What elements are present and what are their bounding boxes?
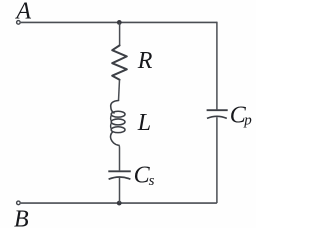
resistor R (zigzag) [112,45,127,79]
wire: lead between resistor and inductor [119,80,120,101]
capacitor Cs top plate (flat) [108,170,131,172]
wire: top horizontal from terminal A to top-right corner [21,21,217,23]
svg-text:L: L [137,110,151,136]
wire: right vertical from top-right corner down to Cp top plate [216,22,218,110]
capacitor Cs bottom plate (curved) [109,177,131,179]
capacitor Cp bottom plate (curved) [207,116,227,118]
wire: bottom horizontal from terminal B to bottom-right corner [21,202,217,204]
terminal A (open circle) [17,21,21,25]
svg-text:s: s [149,173,155,189]
wire: lead from Cs bottom plate to bottom junction [119,178,121,204]
inductor L: exit sweep to bottom lead [110,132,118,145]
inductor L: left connector between loop 2 and loop 3 [110,123,113,129]
svg-text:A: A [14,0,31,24]
inductor L: left connector between loop 1 and loop 2 [110,115,113,121]
inductor L: entry hook from top lead [111,101,119,114]
svg-text:B: B [14,207,29,229]
wire: lead between inductor and capacitor Cs [118,145,121,171]
node: top junction dot [117,20,122,25]
terminal B (open circle) [17,201,21,205]
wire: right vertical from Cp bottom plate down to bottom-right corner [216,117,218,203]
inductor L: loop 3 [111,127,125,133]
inductor L: loop 2 [111,119,125,125]
capacitor Cp top plate (flat) [207,109,228,111]
inductor L: loop 1 [111,111,125,117]
node: bottom junction dot [117,201,122,206]
wire: middle branch lead from top junction down to resistor [119,22,121,45]
svg-text:p: p [243,113,252,129]
svg-text:R: R [137,48,153,74]
